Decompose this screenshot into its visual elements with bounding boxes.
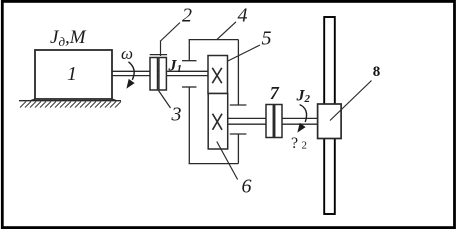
svg-text:5: 5: [262, 28, 272, 50]
crossbar above coupling: [150, 54, 167, 56]
housing top wall: [189, 39, 239, 41]
output shaft gearbox to load: [228, 118, 318, 124]
housing right wall upper: [237, 40, 239, 105]
rotation arrowhead: [126, 79, 134, 89]
gear 5 X mark: [212, 68, 222, 83]
motor left foot: [30, 99, 36, 101]
leader line to 6: [217, 142, 238, 180]
svg-text:3: 3: [171, 104, 182, 126]
ground line under motor: [19, 100, 121, 102]
motor block 1: [35, 50, 112, 99]
leader line to 2: [161, 23, 181, 42]
svg-text:2: 2: [302, 140, 308, 152]
gear 6 X mark: [213, 114, 223, 130]
gear 6 block: [208, 94, 228, 150]
right wall upper cap bar: [230, 104, 247, 106]
svg-text:7: 7: [270, 83, 280, 103]
rotation arrow arc at load shaft: [300, 105, 307, 122]
coupling halves 2 and 3: [150, 58, 166, 91]
svg-text:2: 2: [182, 5, 192, 27]
ground hatching: [20, 102, 121, 108]
gearbox housing 4: [182, 40, 246, 164]
leader line to 5: [228, 45, 260, 61]
svg-text:8: 8: [373, 64, 381, 80]
housing left wall lower: [188, 87, 190, 164]
coupling 7 halves: [266, 105, 282, 138]
housing right wall lower: [237, 134, 239, 164]
leader line to 4: [217, 22, 236, 40]
pinion block 8 on rack: [318, 104, 342, 139]
rotation arrowhead at load shaft: [297, 123, 305, 133]
leader tick above coupling: [160, 41, 162, 57]
rotation arrow arc at motor shaft: [129, 62, 135, 80]
housing bottom wall: [189, 163, 239, 165]
right wall lower cap bar: [230, 133, 247, 135]
svg-text:?: ?: [291, 135, 298, 152]
svg-text:1: 1: [67, 63, 77, 85]
svg-text:4: 4: [238, 5, 248, 27]
input shaft motor to gearbox: [112, 71, 208, 75]
left wall lower cap bar: [182, 86, 197, 88]
left wall upper cap bar: [182, 60, 197, 62]
svg-text:ω: ω: [121, 44, 133, 63]
gear 5 block: [208, 56, 228, 94]
svg-text:Jд,M: Jд,M: [50, 27, 87, 49]
motor right foot: [112, 99, 118, 101]
svg-text:6: 6: [242, 176, 252, 198]
vertical rack bar: [324, 17, 335, 214]
leader line to 8: [330, 81, 372, 121]
leader line to 3: [159, 91, 171, 109]
housing left wall upper: [188, 40, 190, 61]
